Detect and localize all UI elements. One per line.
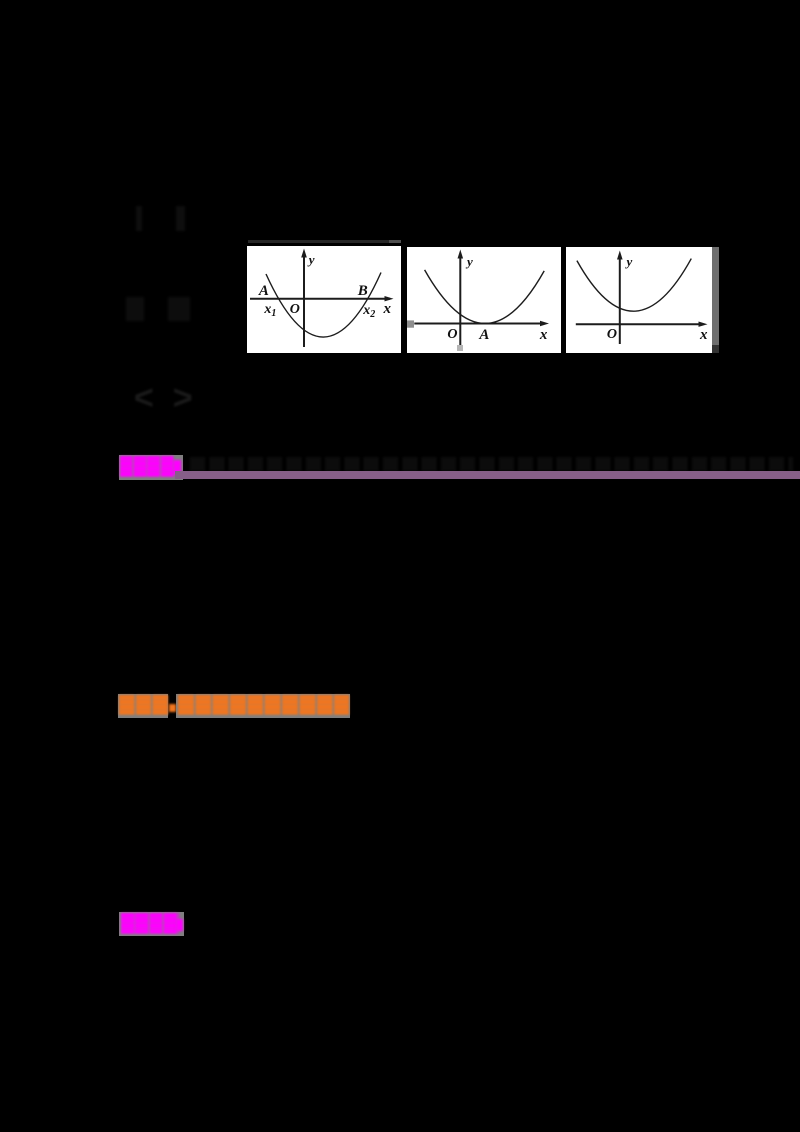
orange heading: segment 2 highlight <box>176 694 350 718</box>
magenta heading 2 text blobs <box>121 913 179 934</box>
svg-text:O: O <box>447 327 457 342</box>
x-axis <box>414 323 545 325</box>
y-axis <box>303 253 305 347</box>
svg-text:x: x <box>699 327 708 343</box>
faint dark text row right of heading 1 <box>190 457 793 471</box>
magenta heading 1 text blobs <box>120 456 174 477</box>
parabola <box>577 259 691 312</box>
svg-text:O: O <box>607 327 617 342</box>
svg-text:y: y <box>307 252 315 267</box>
x-axis <box>250 298 390 300</box>
svg-text:y: y <box>625 254 633 269</box>
y-axis <box>619 255 621 344</box>
svg-text:y: y <box>465 254 473 269</box>
bracket pair 2 (faint) <box>126 297 144 321</box>
magenta heading 2: gray highlight block <box>119 912 184 936</box>
purple horizontal rule <box>175 471 800 479</box>
gray square left of x-axis <box>407 320 414 327</box>
graph 3 : parabola above x-axis <box>566 247 712 353</box>
svg-text:O: O <box>290 302 300 317</box>
bracket pair 1 (faint) <box>136 206 142 231</box>
parabola <box>425 270 545 324</box>
svg-text:A: A <box>258 283 269 299</box>
x-axis <box>576 323 703 325</box>
graph 2 : parabola tangent to x-axis at A <box>407 247 561 353</box>
orange heading: segment 1 text <box>119 695 168 715</box>
orange heading: segment 1 highlight <box>118 694 168 718</box>
svg-text:x: x <box>539 327 548 343</box>
gray bar above graph 1 <box>248 240 401 243</box>
orange heading: segment 2 text <box>178 695 350 715</box>
y-axis <box>459 254 461 349</box>
orange comma <box>169 704 176 712</box>
svg-text:x: x <box>382 301 391 317</box>
bracket pair 3 (faint) <box>134 379 196 419</box>
parabola <box>266 273 381 338</box>
svg-text:A: A <box>478 327 489 343</box>
svg-text:B: B <box>357 283 368 299</box>
graph 1 : parabola crossing x-axis at x1,x2 <box>247 246 401 353</box>
dark bar right of graph 3 <box>712 247 719 345</box>
magenta heading 1: gray highlight block <box>119 455 183 480</box>
